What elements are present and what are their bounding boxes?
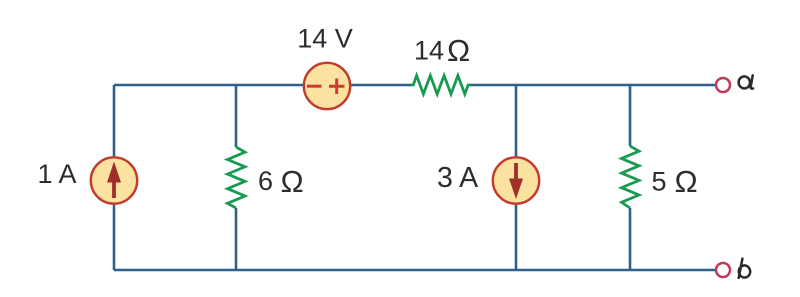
wire 6-ohm branch (235, 85, 238, 270)
wire top rail (114, 84, 716, 87)
terminal a (716, 78, 730, 92)
wire left vertical (113, 85, 116, 270)
svg-text:1 A: 1 A (37, 159, 76, 189)
voltage source 14 V (304, 63, 350, 109)
svg-text:Ω: Ω (675, 164, 698, 199)
wire bottom rail (114, 269, 716, 272)
svg-text:Ω: Ω (281, 164, 304, 199)
svg-text:Ω: Ω (447, 33, 470, 68)
svg-text:14: 14 (414, 36, 444, 66)
wire 3A branch (515, 85, 518, 270)
svg-text:3 A: 3 A (437, 162, 478, 194)
resistor 14 ohm (411, 76, 471, 95)
svg-text:14 V: 14 V (297, 24, 353, 54)
current source 3 A (493, 157, 539, 203)
resistor 6 ohm (228, 147, 246, 208)
svg-text:6: 6 (258, 166, 273, 196)
label a (738, 75, 753, 89)
current source 1 A (91, 157, 137, 203)
label b (738, 259, 751, 279)
wire 5-ohm branch (629, 85, 632, 270)
terminal b (716, 263, 730, 277)
svg-text:5: 5 (652, 167, 667, 197)
resistor 5 ohm (622, 146, 640, 208)
